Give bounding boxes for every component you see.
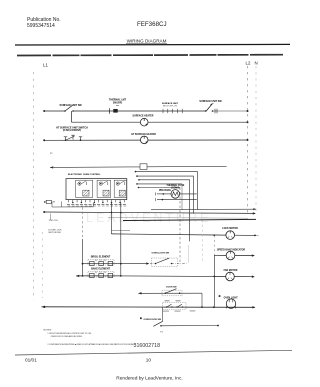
svg-text:NOTES:: NOTES: — [44, 329, 53, 331]
svg-text:5995347514: 5995347514 — [27, 23, 55, 29]
svg-text:BROIL ELEMENT: BROIL ELEMENT — [91, 256, 111, 259]
svg-text:LOCK MOTOR: LOCK MOTOR — [222, 228, 238, 230]
svg-text:FEF368CJ: FEF368CJ — [137, 21, 167, 28]
svg-text:PRE BAKE: PRE BAKE — [159, 189, 171, 192]
svg-text:RECP (RF-LF): RECP (RF-LF) — [163, 106, 178, 108]
svg-text:L1: L1 — [43, 63, 48, 68]
svg-text:10: 10 — [146, 357, 152, 362]
svg-text:HT SURFACE HEATER: HT SURFACE HEATER — [131, 133, 156, 136]
svg-text:Rendered by LeadVenture, Inc.: Rendered by LeadVenture, Inc. — [116, 376, 182, 382]
svg-text:SURFACE HEATER: SURFACE HEATER — [133, 115, 154, 118]
svg-text:OVEN DOOR CLOSED AND UNLOCKED.: OVEN DOOR CLOSED AND UNLOCKED. — [51, 335, 84, 338]
svg-text:N: N — [255, 61, 258, 66]
svg-text:1 CIRCUIT SHOWN WITH ALL CON: 1 CIRCUIT SHOWN WITH ALL CONTROLS SET TO… — [48, 332, 92, 335]
svg-text:WIRING DIAGRAM: WIRING DIAGRAM — [127, 39, 167, 44]
svg-text:2 COMPONENTS SHOWN WITHIN ■: 2 COMPONENTS SHOWN WITHIN ■ LINES DO NOT… — [48, 343, 137, 346]
svg-text:OVEN LIGHT SW: OVEN LIGHT SW — [152, 253, 170, 255]
svg-text:FAN MOTOR: FAN MOTOR — [224, 269, 238, 272]
svg-text:OVEN DOOR SW: OVEN DOOR SW — [144, 319, 162, 321]
svg-text:SW (RF): SW (RF) — [113, 101, 122, 104]
svg-text:DOOR SW: DOOR SW — [166, 287, 176, 289]
svg-text:THERMAL FUSE: THERMAL FUSE — [166, 184, 184, 187]
svg-text:SURFACE UNIT SW: SURFACE UNIT SW — [199, 100, 222, 103]
svg-text:ELECTRONIC OVEN CONTROL: ELECTRONIC OVEN CONTROL — [68, 174, 101, 176]
svg-text:316002718: 316002718 — [134, 343, 161, 349]
svg-text:BAKE ELEMENT: BAKE ELEMENT — [91, 268, 110, 271]
svg-text:MOTOR SW: MOTOR SW — [49, 232, 62, 234]
svg-text:P24: P24 — [160, 332, 163, 334]
svg-text:SURFACE UNIT SW: SURFACE UNIT SW — [60, 104, 83, 107]
svg-text:TOD CLK: TOD CLK — [49, 220, 59, 222]
svg-text:(5 INCH FRONT): (5 INCH FRONT) — [63, 129, 82, 132]
svg-text:01/01: 01/01 — [25, 357, 37, 362]
svg-text:L2: L2 — [246, 61, 251, 66]
